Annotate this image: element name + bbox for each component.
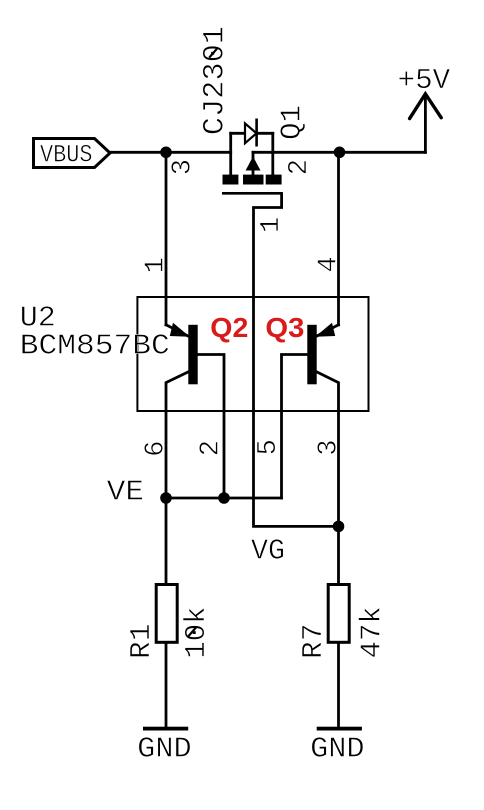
svg-text:2: 2 xyxy=(197,440,227,456)
svg-text:1: 1 xyxy=(257,217,287,233)
svg-text:3: 3 xyxy=(169,159,199,175)
svg-text:R1: R1 xyxy=(125,623,158,659)
svg-text:CJ2301: CJ2301 xyxy=(199,26,233,135)
svg-text:6: 6 xyxy=(142,441,172,457)
svg-text:GND: GND xyxy=(310,733,365,766)
svg-text:BCM857BC: BCM857BC xyxy=(20,329,170,362)
svg-text:GND: GND xyxy=(137,733,192,766)
svg-text:R7: R7 xyxy=(297,623,330,659)
svg-text:+5V: +5V xyxy=(398,64,451,97)
svg-text:47k: 47k xyxy=(356,606,389,658)
svg-text:VG: VG xyxy=(251,535,285,568)
svg-text:5: 5 xyxy=(254,439,284,455)
svg-text:2: 2 xyxy=(285,159,315,175)
svg-text:1: 1 xyxy=(142,257,172,273)
svg-text:4: 4 xyxy=(314,256,344,272)
svg-text:3: 3 xyxy=(315,439,345,455)
svg-text:VBUS: VBUS xyxy=(40,141,93,170)
svg-text:Q2: Q2 xyxy=(210,312,248,343)
svg-text:VE: VE xyxy=(107,475,144,508)
svg-text:Q1: Q1 xyxy=(275,105,308,140)
svg-text:10k: 10k xyxy=(180,606,213,658)
svg-text:Q3: Q3 xyxy=(265,312,304,343)
